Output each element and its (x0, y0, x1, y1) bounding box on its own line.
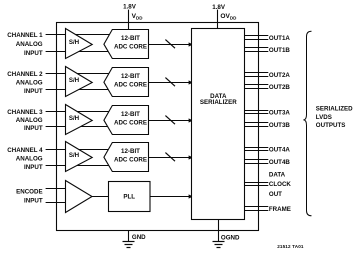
svg-text:INPUT: INPUT (24, 198, 43, 205)
supply VDD 1.8V (123, 4, 143, 30)
brace serialized outputs (303, 31, 311, 216)
svg-text:INPUT: INPUT (24, 125, 43, 132)
chip outline box (57, 23, 259, 231)
ADC core U1 12-bit (104, 30, 149, 59)
svg-text:GND: GND (132, 234, 146, 241)
svg-text:ANALOG: ANALOG (16, 79, 43, 86)
svg-text:ADC CORE: ADC CORE (114, 44, 147, 51)
op-amp S/H 3 (66, 105, 93, 135)
svg-text:CHANNEL 2: CHANNEL 2 (7, 71, 43, 78)
wire channel 1 input + (46, 34, 110, 36)
svg-text:OUT1B: OUT1B (269, 47, 291, 54)
data serializer block U5 (192, 29, 245, 220)
svg-text:S/H: S/H (69, 152, 80, 159)
wire LVDS pair OUT1A (245, 36, 269, 40)
svg-text:INPUT: INPUT (24, 164, 43, 171)
ADC core U2 12-bit (104, 68, 149, 97)
wire channel 2 input - (46, 89, 110, 91)
wire ADC2 bus to serializer (149, 78, 194, 87)
svg-text:LVDS: LVDS (316, 114, 332, 121)
node CHANNEL 3 ANALOG INPUT labels (7, 109, 43, 132)
wire LVDS pair OUT3A (245, 111, 269, 114)
ADC core U4 12-bit (104, 143, 149, 172)
wire ADC1 bus to serializer (149, 40, 194, 49)
svg-text:OUT4A: OUT4A (269, 146, 291, 153)
op-amp S/H 4 (66, 142, 93, 172)
svg-text:OUT3B: OUT3B (269, 122, 291, 129)
wire LVDS pair OUT4A (245, 148, 269, 151)
wire encode input - (46, 202, 66, 204)
svg-text:OUT4B: OUT4B (269, 159, 291, 166)
op-amp S/H 1 (66, 29, 93, 59)
svg-text:VDD: VDD (132, 13, 144, 20)
svg-text:PLL: PLL (123, 194, 135, 201)
svg-text:CHANNEL 3: CHANNEL 3 (7, 109, 43, 116)
svg-text:OUT3A: OUT3A (269, 109, 291, 116)
svg-text:ANALOG: ANALOG (16, 117, 43, 124)
wire LVDS pair OUT1B (245, 48, 269, 52)
node CHANNEL 2 ANALOG INPUT labels (7, 71, 43, 95)
wire channel 3 input + (46, 111, 110, 113)
wire LVDS pair OUT3B (245, 123, 269, 127)
PLL block (109, 182, 151, 212)
svg-text:OUT1A: OUT1A (269, 35, 291, 42)
wire channel 4 input + (46, 149, 110, 151)
svg-text:CHANNEL 1: CHANNEL 1 (7, 32, 43, 39)
wire ADC4 bus to serializer (149, 153, 194, 162)
svg-text:OUT: OUT (269, 191, 282, 198)
wire channel 1 input - (46, 51, 110, 53)
svg-text:OUT2B: OUT2B (269, 84, 291, 91)
ground OGND (213, 220, 240, 248)
wire LVDS pair FRAME (245, 207, 269, 211)
svg-text:ANALOG: ANALOG (16, 41, 43, 48)
node DATA CLOCK OUT label (269, 172, 292, 199)
svg-text:1.8V: 1.8V (212, 4, 226, 11)
wire encode to PLL (92, 196, 109, 198)
svg-text:ADC CORE: ADC CORE (114, 120, 147, 127)
svg-text:ENCODE: ENCODE (16, 189, 42, 196)
svg-text:FRAME: FRAME (269, 206, 291, 213)
svg-text:DATA: DATA (269, 172, 286, 179)
svg-text:12-BIT: 12-BIT (121, 111, 140, 118)
supply OVDD 1.8V (212, 4, 237, 28)
wire LVDS pair OUT4B (245, 160, 269, 164)
svg-text:12-BIT: 12-BIT (121, 73, 140, 80)
wire PLL to serializer (150, 194, 193, 198)
node SERIALIZED LVDS OUTPUTS label (316, 106, 353, 129)
ADC core U3 12-bit (104, 106, 149, 135)
node CHANNEL 4 ANALOG INPUT labels (7, 147, 43, 171)
svg-text:SERIALIZER: SERIALIZER (200, 99, 237, 106)
svg-text:ANALOG: ANALOG (16, 155, 43, 162)
node ENCODE INPUT labels (16, 189, 43, 205)
wire LVDS pair OUT2B (245, 85, 269, 89)
svg-text:12-BIT: 12-BIT (121, 148, 140, 155)
svg-text:ADC CORE: ADC CORE (114, 82, 147, 89)
svg-text:OGND: OGND (221, 235, 240, 242)
svg-text:1.8V: 1.8V (123, 4, 137, 11)
svg-text:OVDD: OVDD (220, 13, 237, 20)
svg-text:CHANNEL 4: CHANNEL 4 (7, 147, 43, 154)
wire channel 3 input - (46, 126, 110, 128)
svg-text:OUTPUTS: OUTPUTS (316, 122, 346, 129)
svg-text:ADC CORE: ADC CORE (114, 157, 147, 164)
svg-text:INPUT: INPUT (24, 88, 43, 95)
svg-text:21512 TA01: 21512 TA01 (277, 244, 304, 249)
wire channel 4 input - (46, 165, 110, 167)
buffer encode amp (66, 181, 93, 213)
wire encode input + (46, 188, 66, 190)
node CHANNEL 1 ANALOG INPUT labels (7, 32, 43, 57)
wire LVDS pair DATA CLOCK OUT (245, 183, 269, 186)
svg-text:INPUT: INPUT (24, 50, 43, 57)
svg-text:SERIALIZED: SERIALIZED (316, 106, 353, 113)
svg-text:S/H: S/H (69, 115, 80, 122)
svg-text:S/H: S/H (69, 77, 80, 84)
wire channel 2 input + (46, 73, 110, 75)
svg-text:S/H: S/H (69, 39, 80, 46)
svg-text:12-BIT: 12-BIT (121, 35, 140, 42)
svg-text:CLOCK: CLOCK (269, 181, 292, 188)
svg-text:OUT2A: OUT2A (269, 72, 291, 79)
wire ADC3 bus to serializer (149, 116, 194, 125)
op-amp S/H 2 (66, 67, 93, 97)
wire LVDS pair OUT2A (245, 73, 269, 77)
ground GND (123, 231, 147, 248)
